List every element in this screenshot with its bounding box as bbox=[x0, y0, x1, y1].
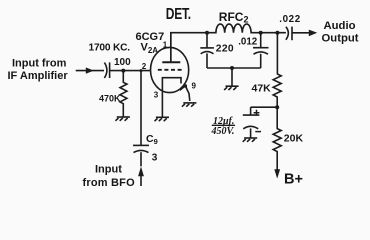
svg-text:IF Amplifier: IF Amplifier bbox=[8, 70, 69, 82]
label: Input from BFO bbox=[83, 164, 136, 189]
node junction 47K tap bbox=[275, 31, 279, 35]
svg-text:2: 2 bbox=[142, 62, 147, 71]
capacitor 100pf coupling bbox=[104, 62, 109, 78]
wire top rail to 47K tap bbox=[261, 32, 286, 34]
svg-text:Input from: Input from bbox=[12, 58, 67, 70]
svg-text:V2A: V2A bbox=[141, 42, 159, 56]
ground below tank bbox=[224, 86, 239, 90]
ground below cathode pin 3 bbox=[155, 117, 170, 121]
wire plate to top rail bbox=[171, 33, 207, 63]
svg-text:220: 220 bbox=[216, 43, 234, 54]
capacitor C9 bbox=[133, 145, 149, 166]
arrowhead audio output bbox=[309, 30, 317, 37]
inductor RFC2 bbox=[207, 24, 261, 33]
arrowhead B+ down bbox=[274, 169, 280, 178]
wire audio output bbox=[292, 32, 309, 34]
capacitor electrolytic 12uf 450V bbox=[243, 107, 259, 138]
arrowhead input bbox=[86, 67, 94, 73]
resistor 47K bbox=[273, 33, 281, 108]
wire filter to electrolytic bbox=[251, 106, 278, 108]
wire cap to grid bbox=[110, 70, 151, 72]
svg-text:B+: B+ bbox=[284, 171, 303, 187]
node junction C9 tap bbox=[140, 69, 143, 72]
wire pin 9 to ground bbox=[185, 86, 189, 101]
svg-text:DET.: DET. bbox=[166, 4, 191, 22]
label polarity plus bbox=[254, 110, 260, 116]
capacitor .012 bbox=[253, 33, 269, 68]
svg-text:.012: .012 bbox=[238, 37, 258, 48]
resistor 470K bbox=[120, 71, 127, 117]
svg-text:Audio: Audio bbox=[324, 20, 356, 32]
label polarity minus bbox=[255, 131, 261, 133]
svg-text:9: 9 bbox=[192, 82, 197, 91]
tube plate (pin 1) bbox=[162, 33, 180, 62]
node junction .012 tap bbox=[259, 31, 263, 35]
label: Audio Output bbox=[322, 20, 359, 44]
wire BFO input arrow bbox=[140, 176, 142, 186]
label: Input from IF Amplifier bbox=[8, 58, 69, 83]
fraction bar under 12uf bbox=[212, 124, 235, 126]
svg-text:RFC2: RFC2 bbox=[219, 10, 249, 25]
capacitor 220 bbox=[200, 33, 214, 68]
arrowhead BFO up bbox=[138, 167, 144, 177]
svg-text:3: 3 bbox=[152, 153, 158, 164]
svg-text:450V.: 450V. bbox=[211, 126, 235, 137]
svg-text:1700 KC.: 1700 KC. bbox=[89, 43, 131, 54]
tube grid (pin 2) dashed bbox=[158, 69, 182, 71]
ground below electrolytic bbox=[243, 138, 258, 142]
tube 6CG7 V2A envelope bbox=[151, 47, 189, 92]
node junction plate/RFC2/220 bbox=[205, 31, 209, 35]
svg-text:470K: 470K bbox=[99, 94, 121, 104]
wire input arrow line bbox=[76, 70, 104, 72]
ground below 470K bbox=[115, 117, 129, 121]
capacitor .022 bbox=[286, 27, 292, 41]
svg-text:100: 100 bbox=[114, 57, 131, 68]
svg-text:47K: 47K bbox=[252, 83, 272, 95]
svg-text:Input: Input bbox=[95, 164, 122, 176]
svg-text:Output: Output bbox=[322, 32, 359, 44]
wire bottom rail of tank bbox=[207, 67, 261, 69]
svg-text:C9: C9 bbox=[146, 133, 158, 146]
wire C9 lead from grid wire bbox=[140, 71, 142, 146]
node junction 470K tap bbox=[121, 69, 125, 73]
tube cathode (pin 3) bbox=[162, 78, 181, 117]
ground below pin 9 bbox=[182, 103, 197, 107]
tube shield pin 9 stroke bbox=[180, 85, 186, 90]
svg-text:20K: 20K bbox=[284, 133, 304, 145]
svg-text:1: 1 bbox=[163, 41, 168, 50]
node pin 9 dot bbox=[184, 84, 187, 87]
svg-text:from BFO: from BFO bbox=[83, 177, 136, 189]
svg-text:.022: .022 bbox=[279, 14, 300, 25]
node junction bottom rail ground tap bbox=[230, 66, 234, 70]
label value 12uf / 450V bbox=[211, 116, 235, 137]
node junction filter bbox=[275, 105, 279, 109]
wire ground lead bbox=[231, 68, 233, 86]
svg-text:3: 3 bbox=[154, 91, 159, 100]
resistor 20K bbox=[273, 107, 281, 170]
